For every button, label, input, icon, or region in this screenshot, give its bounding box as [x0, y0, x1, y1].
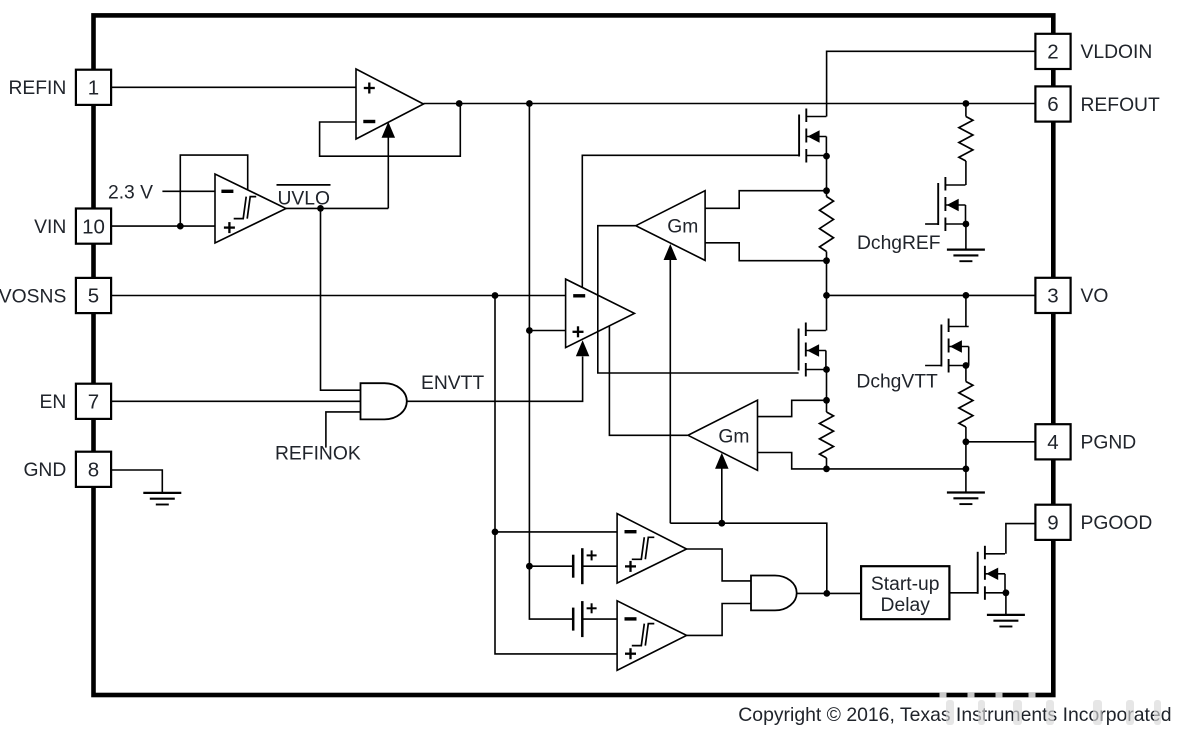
- svg-text:REFOUT: REFOUT: [1081, 95, 1160, 116]
- transistor Q1 REF pass FET: [799, 109, 826, 163]
- pin 2 label VLDOIN: [1081, 42, 1153, 63]
- svg-text:VIN: VIN: [34, 217, 66, 238]
- wire V1 left: [529, 565, 573, 567]
- pin 8 label GND: [23, 460, 66, 481]
- wire Q5 source to ground: [1005, 593, 1007, 615]
- junction VOSNS node: [492, 292, 499, 299]
- junction divider bottom: [823, 257, 830, 264]
- svg-text:VO: VO: [1081, 286, 1109, 307]
- ground symbol PGOOD: [987, 615, 1025, 627]
- pin 3: [1035, 278, 1070, 313]
- wire V2 right: [582, 618, 617, 620]
- wire Q4 gate stub: [925, 365, 941, 367]
- wire divider bottom to VO rail: [826, 252, 828, 296]
- svg-text:Copyright © 2016, Texas Instru: Copyright © 2016, Texas Instruments Inco…: [738, 704, 1171, 726]
- block start-up delay: [861, 566, 949, 619]
- wire U5 output to AND: [687, 549, 751, 581]
- wire REFOUT to R2: [965, 104, 967, 117]
- transistor Q2 DchgREF: [938, 177, 965, 231]
- op-amp U1 REFIN buffer: [356, 69, 424, 139]
- junction PGND node: [963, 438, 970, 445]
- svg-text:9: 9: [1047, 512, 1058, 535]
- wire delay output to Q5 gate: [949, 592, 977, 594]
- wire VOSNS down to window comparators: [495, 296, 617, 654]
- wire U7 output to start-up delay: [797, 592, 861, 594]
- wire REFOUT/2 down to error amp and offset batteries: [529, 104, 573, 620]
- wire Gm2 + input sense: [758, 400, 827, 416]
- pin 7: [76, 384, 111, 419]
- junction UVLO node: [317, 205, 324, 212]
- svg-text:VLDOIN: VLDOIN: [1081, 42, 1153, 63]
- wire EN pin7 to AND gate: [111, 400, 360, 402]
- svg-text:Start-up: Start-up: [871, 574, 940, 595]
- junction R3 bottom: [823, 466, 830, 473]
- comparator U2 UVLO: [215, 174, 286, 243]
- resistor R2 DchgREF: [959, 117, 973, 162]
- wire Gm1 enable stem: [669, 260, 671, 523]
- svg-text:Gm: Gm: [718, 427, 749, 448]
- wire Gm2 output into U4: [609, 326, 687, 435]
- svg-text:DchgVTT: DchgVTT: [856, 371, 938, 392]
- wire GND pin8 to ground: [111, 470, 163, 493]
- and-gate U7 power good: [751, 576, 797, 611]
- transconductance amp Gm1: [636, 191, 705, 261]
- ground symbol at GND pin: [143, 493, 181, 505]
- junction VIN node: [177, 223, 184, 230]
- wire REFIN pin1 to buffer + input: [111, 86, 356, 88]
- junction Q3 source: [823, 366, 830, 373]
- junction VO rail right: [963, 292, 970, 299]
- junction battery V1: [526, 563, 533, 570]
- IC boundary box: [94, 15, 1054, 695]
- wire upper comparator - input: [495, 531, 617, 533]
- junction R3 top: [823, 397, 830, 404]
- label REFINOK: [275, 443, 361, 464]
- wire VLDOIN pin2 to pass FET drain: [827, 51, 1036, 116]
- junction Gm2 enable: [718, 520, 725, 527]
- pin 4: [1035, 424, 1070, 459]
- arrow UVLO into U1: [382, 122, 396, 138]
- label ENVTT: [421, 373, 484, 394]
- wire Q2 source to ground: [965, 224, 967, 250]
- pin 9 label PGOOD: [1081, 513, 1153, 534]
- junction U1 output: [456, 100, 463, 107]
- pin 9: [1035, 505, 1070, 540]
- svg-text:EN: EN: [40, 392, 67, 413]
- wire Q3 source to R3: [826, 370, 828, 413]
- and-gate U3 enable: [361, 383, 407, 419]
- pin 10 label VIN: [34, 217, 66, 238]
- junction VOSNS to upper comparator: [492, 529, 499, 536]
- junction REFOUT rail A: [526, 100, 533, 107]
- junction Q5 source: [1003, 589, 1010, 596]
- pin 4 label PGND: [1081, 433, 1137, 454]
- label 2.3 V: [108, 183, 153, 204]
- svg-text:10: 10: [82, 215, 105, 238]
- svg-text:PGND: PGND: [1081, 433, 1137, 454]
- svg-text:6: 6: [1047, 93, 1058, 116]
- comparator U5 PG high: [617, 514, 687, 584]
- wire R4 to ground: [965, 427, 967, 493]
- label DchgVTT: [856, 371, 938, 392]
- wire Gm1 + input sense: [705, 191, 826, 209]
- wire Q4 source to R4: [965, 366, 967, 382]
- wire R3 bottom to PGND link: [827, 458, 966, 469]
- wire UVLO down to AND gate: [321, 208, 361, 390]
- wire Q3 drain to VO rail: [826, 295, 828, 330]
- junction Q2 source: [963, 221, 970, 228]
- pin 1: [76, 70, 111, 105]
- svg-text:ENVTT: ENVTT: [421, 373, 484, 394]
- wire VO rail: [827, 294, 1036, 296]
- wire UVLO comp hysteresis box: [180, 155, 247, 226]
- battery V1 offset: [573, 548, 596, 584]
- wire U1 output / REFOUT rail: [424, 103, 1036, 105]
- svg-text:VOSNS: VOSNS: [0, 286, 66, 307]
- svg-text:2: 2: [1047, 41, 1058, 64]
- label UVLO with overline: [277, 185, 331, 209]
- svg-text:4: 4: [1047, 431, 1058, 454]
- wire V1 right: [582, 565, 617, 567]
- comparator U6 PG low: [617, 601, 687, 671]
- wire Gm2 - input sense: [758, 453, 827, 469]
- ground symbol DchgVTT: [947, 493, 985, 505]
- svg-text:GND: GND: [23, 460, 66, 481]
- svg-text:5: 5: [88, 285, 99, 308]
- wire U4 output to REF pass FET gate: [582, 155, 799, 287]
- wire Gm1 output through U4 to VTT FET gate: [598, 226, 799, 373]
- pin 3 label VO: [1081, 286, 1109, 307]
- svg-text:Gm: Gm: [667, 217, 698, 238]
- svg-text:DchgREF: DchgREF: [857, 233, 941, 254]
- junction PG enable branch: [823, 590, 830, 597]
- pin 5 label VOSNS: [0, 286, 66, 307]
- svg-text:REFINOK: REFINOK: [275, 443, 361, 464]
- junction divider top: [823, 187, 830, 194]
- pin 10: [76, 209, 111, 244]
- junction REFOUT node: [963, 100, 970, 107]
- svg-text:3: 3: [1047, 285, 1058, 308]
- wire VOSNS pin5 to error amp - input: [111, 295, 565, 297]
- wire Gm2 enable stem: [721, 469, 723, 524]
- pin 2: [1035, 34, 1070, 69]
- wire Gm enable chain: [670, 523, 827, 593]
- battery V2 offset: [573, 601, 596, 637]
- label DchgREF: [857, 233, 941, 254]
- pin 7 label EN: [40, 392, 67, 413]
- wire Q1 source to divider: [826, 156, 828, 197]
- resistor R1 REF sense: [820, 197, 834, 252]
- wire REFINOK to AND gate: [326, 412, 361, 448]
- wire UVLO output: [286, 207, 388, 209]
- wire ENVTT to error amp enable: [407, 357, 583, 402]
- watermark artifacts: [940, 692, 1162, 725]
- svg-text:PGOOD: PGOOD: [1081, 513, 1153, 534]
- ground symbol DchgREF: [947, 250, 985, 262]
- arrow ENVTT into error amp: [576, 340, 590, 356]
- pin 5: [76, 278, 111, 313]
- wire UVLO to U1 enable: [387, 137, 389, 208]
- wire Gm1 - input sense: [705, 243, 826, 261]
- junction VO rail left: [823, 292, 830, 299]
- svg-text:Delay: Delay: [881, 595, 931, 616]
- transistor Q4 DchgVTT: [941, 319, 968, 373]
- wire R2 to Q2 drain: [965, 161, 967, 185]
- wire 2.3V to UVLO comp - input: [162, 190, 215, 192]
- wire Q2 gate stub: [925, 223, 938, 225]
- copyright text: [738, 704, 1171, 726]
- pin 1 label REFIN: [8, 78, 66, 99]
- wire Q5 drain to pin 9: [1006, 524, 1035, 554]
- junction Q4 source: [963, 362, 970, 369]
- resistor R3 VTT sense: [820, 412, 834, 458]
- arrow enable into Gm1: [664, 244, 678, 260]
- junction error amp + input: [526, 327, 533, 334]
- resistor R4 discharge: [959, 382, 973, 428]
- svg-text:1: 1: [88, 77, 99, 100]
- wire U1 feedback loop: [320, 104, 461, 157]
- svg-text:7: 7: [88, 391, 99, 414]
- wire error amp + input stub: [529, 330, 565, 332]
- pin 6: [1035, 86, 1070, 121]
- wire U6 output to AND: [687, 604, 751, 636]
- wire VIN pin10 to UVLO comparator: [110, 225, 215, 227]
- svg-text:REFIN: REFIN: [8, 78, 66, 99]
- wire VO to Q4 drain: [965, 295, 967, 326]
- junction PGND ground link: [963, 466, 970, 473]
- transconductance amp Gm2: [688, 400, 758, 470]
- wire PGND to pin 4: [966, 441, 1036, 443]
- svg-text:2.3 V: 2.3 V: [108, 183, 153, 204]
- op-amp U4 error amplifier: [566, 279, 635, 348]
- pin 6 label REFOUT: [1081, 95, 1160, 116]
- pin 8: [76, 452, 111, 487]
- svg-text:8: 8: [88, 459, 99, 482]
- transistor Q3 VTT sink FET: [799, 323, 826, 377]
- transistor Q5 PGOOD FET: [978, 546, 1005, 600]
- arrow enable into Gm2: [715, 453, 729, 469]
- junction Q1 source: [823, 153, 830, 160]
